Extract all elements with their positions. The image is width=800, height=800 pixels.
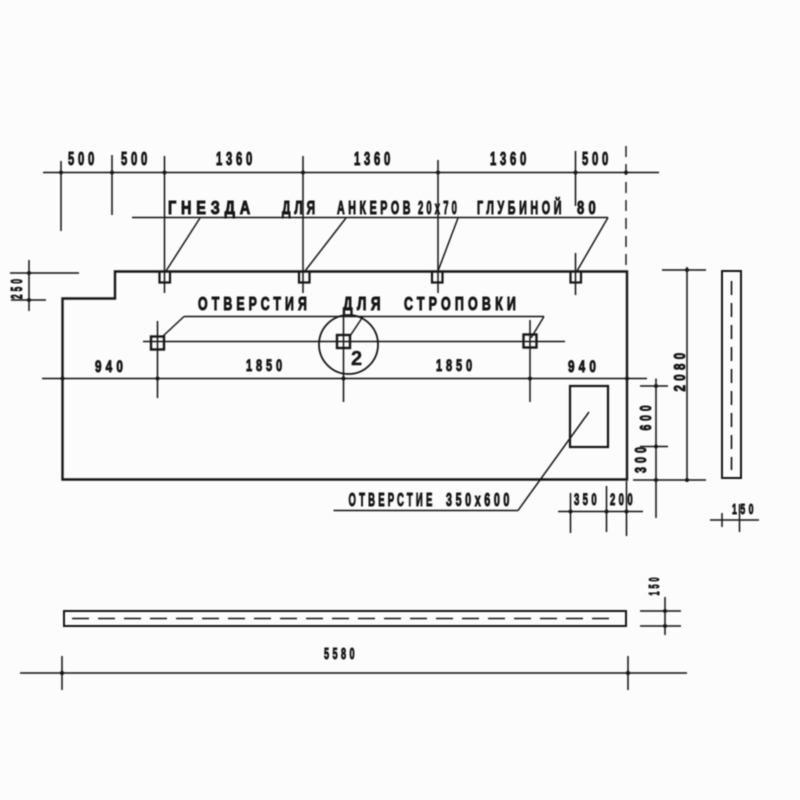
- anchor socket 2: [299, 272, 310, 283]
- svg-text:ГЛУБИНОЙ: ГЛУБИНОЙ: [477, 197, 565, 218]
- bottom view centerline (dashed): [72, 618, 618, 620]
- extension line socket 1: [164, 156, 166, 293]
- middle dimension line 940/1850: [42, 378, 647, 380]
- svg-text:500: 500: [121, 149, 151, 169]
- svg-text:350: 350: [574, 490, 600, 509]
- svg-text:АНКЕРОВ: АНКЕРОВ: [337, 198, 414, 218]
- leader to opening: [518, 412, 589, 511]
- leader to hole 2: [350, 317, 363, 337]
- bottom dimension 350/200: dim line: [558, 511, 643, 513]
- svg-text:300: 300: [633, 443, 650, 473]
- note text: holes for slinging: [198, 294, 520, 314]
- leader to socket 4: [577, 218, 608, 272]
- note text: opening 350x600: [349, 490, 514, 510]
- note underline: [132, 217, 608, 219]
- leader to socket 1: [166, 218, 200, 271]
- svg-text:1360: 1360: [490, 149, 530, 169]
- svg-text:350х600: 350х600: [446, 490, 513, 510]
- extension opening right: [606, 486, 608, 532]
- note text: sockets for anchors: [168, 197, 600, 218]
- 5580 tick right: [627, 656, 629, 690]
- lifting hole 2: [337, 335, 350, 348]
- svg-text:ДЛЯ: ДЛЯ: [343, 294, 385, 314]
- anchor socket 1: [160, 272, 171, 283]
- svg-text:940: 940: [568, 357, 600, 376]
- svg-text:500: 500: [68, 149, 98, 169]
- anchor socket 3: [432, 272, 443, 283]
- thickness extension top: [640, 610, 681, 612]
- 2080 extension top: [662, 269, 706, 271]
- extension at panel bottom right: [633, 479, 706, 481]
- svg-text:2080: 2080: [672, 349, 689, 392]
- leader to socket 2: [305, 218, 346, 271]
- side view centerline (dashed): [731, 281, 733, 470]
- opening note underline: [334, 510, 519, 512]
- 5580 tick left: [61, 656, 63, 690]
- anchor socket 4: [571, 272, 582, 283]
- svg-text:ГНЕЗДА: ГНЕЗДА: [168, 198, 255, 218]
- overall length dimension 5580: [20, 672, 687, 674]
- panel outline (plan view with top-left notch): [63, 272, 628, 480]
- extension at opening top: [640, 385, 668, 387]
- svg-text:20х70: 20х70: [418, 198, 460, 218]
- leader to socket 3: [438, 218, 458, 271]
- right vertical dimension line 600/300: [655, 379, 657, 519]
- svg-text:ОТВЕРСТИЯ: ОТВЕРСТИЯ: [198, 294, 311, 314]
- centerline hole 1: [157, 321, 159, 398]
- 250 extension line bottom: [11, 299, 46, 301]
- svg-text:80: 80: [577, 198, 600, 218]
- 250 tick dots: [27, 271, 31, 302]
- extension line socket 4 upper: [575, 151, 577, 206]
- opening 350x600 rectangle: [570, 386, 608, 447]
- 2080 tick dots: [685, 268, 689, 482]
- extension line panel right edge (dashed): [625, 146, 627, 268]
- svg-text:940: 940: [95, 357, 127, 376]
- leader to hole 1: [162, 317, 184, 338]
- svg-text:ОТВЕРСТИЕ: ОТВЕРСТИЕ: [349, 490, 436, 510]
- svg-text:1850: 1850: [436, 356, 476, 375]
- lifting hole 3: [524, 335, 537, 348]
- extension line socket 3: [437, 160, 439, 293]
- 350/200 tick dots: [569, 510, 629, 514]
- svg-text:600: 600: [638, 402, 655, 431]
- centerline hole 3: [529, 320, 531, 402]
- tick dots on top dimension line: [59, 171, 628, 175]
- extension panel right: [626, 481, 628, 536]
- svg-text:150: 150: [732, 501, 757, 518]
- svg-text:150: 150: [646, 575, 663, 596]
- centerline hole 2: [343, 316, 345, 402]
- svg-text:250: 250: [9, 276, 26, 299]
- extension line socket 4 lower: [575, 253, 577, 295]
- side view plank (right): [722, 271, 741, 478]
- bottom view plank: [64, 611, 626, 626]
- left dimension 250: dim line: [28, 260, 30, 311]
- slinging note underline: [184, 316, 544, 318]
- svg-text:1360: 1360: [354, 149, 394, 169]
- svg-text:5580: 5580: [324, 646, 358, 663]
- 5580 tick dots: [60, 671, 630, 675]
- leader to hole 3: [531, 317, 544, 339]
- extension opening left: [570, 493, 572, 533]
- extension line socket 2: [302, 156, 304, 293]
- side view width dim line: [710, 519, 759, 521]
- svg-text:200: 200: [610, 490, 636, 509]
- outer vertical dimension 2080: [686, 267, 688, 482]
- 250 extension line top: [10, 272, 79, 274]
- tick dots on middle dimension line: [61, 377, 630, 381]
- thickness extension bottom: [640, 625, 681, 627]
- extension line at panel left edge: [60, 161, 62, 231]
- lifting hole 1: [151, 337, 164, 350]
- extension at opening bottom: [640, 446, 668, 448]
- svg-text:СТРОПОВКИ: СТРОПОВКИ: [404, 294, 520, 314]
- bottom view thickness dim line: [664, 597, 666, 635]
- side view dim tick left: [721, 513, 723, 527]
- svg-text:500: 500: [582, 149, 612, 169]
- thickness tick dots: [663, 609, 667, 628]
- svg-text:ДЛЯ: ДЛЯ: [282, 198, 319, 218]
- side view dim tick right: [739, 504, 741, 532]
- svg-text:2: 2: [351, 348, 368, 370]
- extension line at notch step: [111, 155, 113, 215]
- horizontal line through lifting holes: [143, 341, 565, 343]
- svg-text:1360: 1360: [216, 149, 256, 169]
- top dimension line: [43, 172, 659, 174]
- tick dots 600/300: [654, 384, 658, 482]
- detail circle mark 2: [319, 315, 378, 374]
- svg-text:1850: 1850: [246, 356, 286, 375]
